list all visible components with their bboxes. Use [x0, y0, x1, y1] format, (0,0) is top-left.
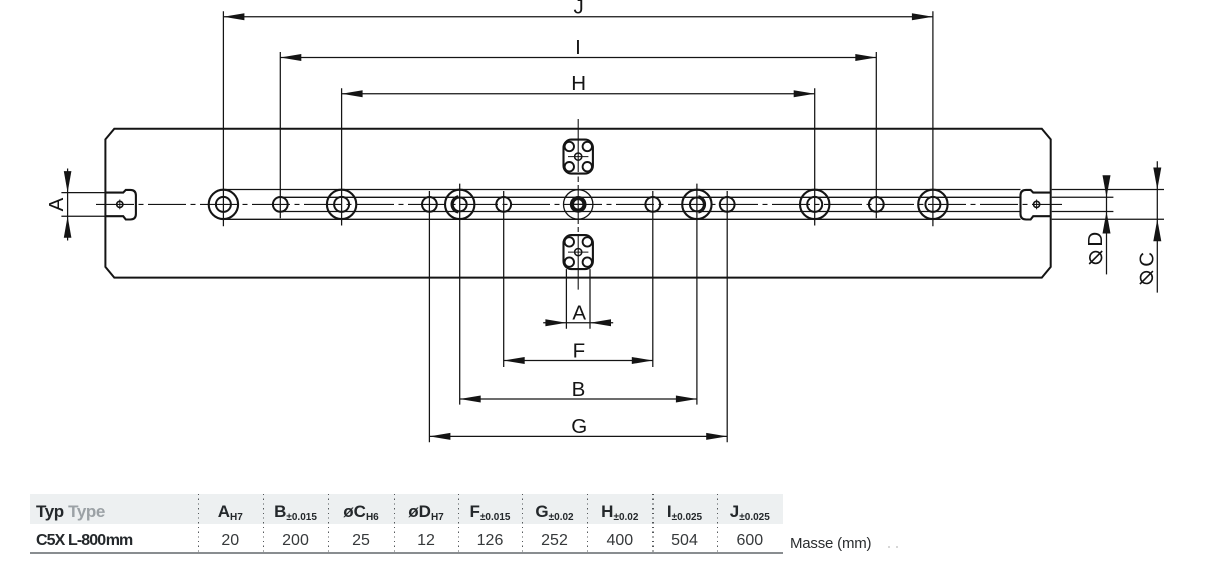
slot outer groove lines (øC width)	[223, 190, 1020, 220]
dimension A bottom extension lines	[566, 269, 590, 329]
dimension B label	[572, 378, 586, 401]
data cell A value	[221, 532, 239, 550]
header cell øD H7	[408, 502, 443, 523]
dimension H line	[342, 93, 815, 95]
table column separator 1	[198, 494, 199, 553]
data cell B value	[282, 532, 309, 550]
dimension A bottom label	[572, 302, 586, 325]
header cell G ±0.02	[535, 502, 573, 523]
table column separator 6	[522, 494, 523, 553]
dimension oD line	[1106, 177, 1108, 275]
header cell A H7	[218, 502, 243, 523]
dimension oD arrowheads	[1103, 175, 1111, 233]
dimension A left line	[67, 169, 69, 241]
table column separator 2	[263, 494, 264, 553]
header cell Typ Type	[36, 502, 105, 522]
dimension J line	[223, 16, 933, 18]
hole H4 small ø12	[422, 197, 437, 212]
right slot end cap (keyhole)	[1021, 190, 1051, 220]
data cell F value	[477, 532, 504, 550]
dimension oC label (rotated)	[1135, 252, 1158, 267]
table bottom border	[30, 552, 783, 553]
hole H12 counterbored ø25/ø12	[918, 190, 947, 219]
table column separator 5	[458, 494, 459, 553]
dimension F extension lines	[504, 191, 653, 367]
dimension A bottom arrowheads	[545, 319, 611, 326]
hole H11 small ø12	[869, 197, 884, 212]
dimension H label	[571, 72, 586, 95]
svg-text:A: A	[572, 302, 586, 325]
dimension B arrowheads	[460, 396, 697, 403]
dimension B line	[460, 398, 697, 400]
hole H8 threaded counterbored	[682, 190, 711, 219]
bottom pocket corner bores	[565, 237, 592, 267]
faint leader dots	[888, 546, 890, 548]
right end cap pilot hole with center cross	[1034, 200, 1040, 210]
data cell C value	[352, 532, 370, 550]
dimension H arrowheads	[342, 90, 815, 97]
dimension F arrowheads	[504, 357, 653, 364]
svg-text:F: F	[573, 340, 586, 363]
dimension A left arrowheads	[64, 171, 72, 238]
hole H5 threaded counterbored	[445, 190, 474, 219]
dimension A left extension lines	[61, 193, 105, 217]
hole H10 counterbored ø25/ø12	[800, 190, 829, 219]
svg-text:A: A	[45, 197, 68, 211]
dimension F line	[504, 360, 653, 362]
dimension oC extension lines	[1052, 190, 1164, 220]
dimension J extension lines	[223, 11, 933, 226]
hole H7 small ø12	[645, 197, 660, 212]
dimension G extension lines	[429, 191, 727, 442]
data cell G value	[541, 532, 568, 550]
top pocket corner bores	[565, 142, 592, 172]
top pocket center hole with cross	[568, 153, 588, 160]
caption Masse (mm)	[790, 535, 871, 552]
bottom pocket center hole with cross	[568, 249, 588, 256]
header cell B ±0.015	[274, 502, 317, 523]
dimension B extension lines	[460, 184, 697, 405]
table column separator 9	[717, 494, 718, 553]
svg-text:B: B	[572, 378, 586, 401]
dimension oC diameter symbol	[1140, 271, 1153, 284]
data cell D value	[417, 532, 435, 550]
plate outline (rail body with chamfered corners)	[105, 129, 1050, 278]
vertical center line through part center	[577, 119, 579, 290]
svg-text:I: I	[575, 36, 581, 59]
dimension I arrowheads	[280, 54, 876, 61]
hole H1 counterbored ø25/ø12	[209, 190, 238, 219]
dimension oD diameter symbol	[1089, 251, 1102, 264]
dimension J arrowheads	[223, 13, 933, 20]
table column separator 4	[394, 494, 395, 553]
dimension A bottom line	[543, 322, 613, 324]
svg-text:H: H	[571, 72, 586, 95]
dimension F label	[573, 340, 586, 363]
table column separator 3	[328, 494, 329, 553]
table column separator 8	[652, 494, 653, 553]
dimension H extension lines	[342, 88, 815, 225]
header cell J ±0.025	[730, 502, 770, 523]
dimension I line	[280, 57, 876, 59]
dimension J label	[573, 0, 583, 19]
svg-text:J: J	[573, 0, 583, 19]
dimension I label	[575, 36, 581, 59]
header cell I ±0.025	[667, 502, 702, 523]
left end cap pilot hole with center cross	[117, 200, 123, 210]
data cell J value	[736, 532, 763, 550]
hole H2 small ø12	[273, 197, 288, 212]
dimension G line	[429, 435, 727, 437]
slot inner groove lines (øD width)	[280, 197, 1020, 211]
table column separator 7	[587, 494, 588, 553]
left slot end cap (keyhole)	[105, 190, 135, 220]
dimension A left label (rotated)	[45, 197, 68, 211]
dimension G arrowheads	[429, 433, 727, 440]
dimension oC line	[1156, 161, 1158, 292]
dimension oC arrowheads	[1153, 168, 1161, 242]
top clamping pocket outline	[564, 140, 593, 174]
svg-text:C: C	[1135, 252, 1158, 267]
svg-text:G: G	[571, 415, 587, 438]
bottom clamping pocket outline	[564, 235, 593, 269]
header cell øC H6	[343, 502, 378, 523]
table header background	[30, 494, 783, 524]
dimension oD extension lines	[1052, 197, 1114, 211]
svg-text:D: D	[1084, 232, 1107, 247]
data cell H value	[606, 532, 633, 550]
horizontal center line	[96, 203, 1062, 205]
dimension G label	[571, 415, 587, 438]
dimension I extension lines	[280, 52, 876, 218]
dimension oD label (rotated)	[1084, 232, 1107, 247]
hole H9 small ø12	[720, 197, 735, 212]
hole H6 small ø12	[496, 197, 511, 212]
hole H3 counterbored ø25/ø12	[327, 190, 356, 219]
data cell I value	[671, 532, 698, 550]
data cell type name	[36, 532, 132, 550]
header cell H ±0.02	[601, 502, 638, 523]
header cell F ±0.015	[470, 502, 511, 523]
center bore (filled ring)	[564, 190, 593, 219]
